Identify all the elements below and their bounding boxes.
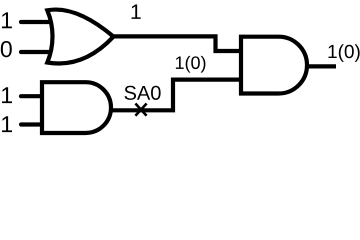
wire input C to AND gate G2	[21, 94, 44, 98]
wire input B to OR gate G1	[21, 50, 56, 54]
label output value 1(0)	[329, 44, 360, 62]
wire input A to OR gate G1	[21, 20, 56, 24]
label input B value 0	[1, 41, 12, 57]
wire input D to AND gate G2	[21, 122, 44, 126]
label input C value 1	[2, 87, 12, 103]
label input D value 1	[2, 116, 12, 132]
label wire value 1(0)	[176, 56, 206, 73]
wire OR output to AND gate G3 top input (with step down)	[110, 36, 241, 51]
wire AND G3 output	[306, 64, 336, 68]
label input A value 1	[2, 12, 12, 28]
fault X mark on wire	[135, 104, 146, 116]
OR gate G1	[47, 10, 113, 64]
AND gate G2	[42, 82, 111, 133]
label SA0 fault	[125, 86, 161, 100]
wire AND G2 output to AND gate G3 bottom input (up and over)	[109, 80, 241, 111]
label OR output value 1	[132, 4, 141, 18]
AND gate G3	[241, 37, 307, 94]
